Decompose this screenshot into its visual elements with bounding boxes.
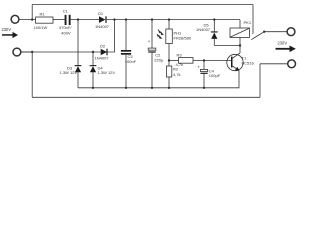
wire main + rail xyxy=(107,19,240,21)
svg-text:BC516: BC516 xyxy=(242,61,255,66)
resistor R1 xyxy=(36,17,53,23)
wire top bypass 230V live xyxy=(32,4,253,6)
svg-text:+: + xyxy=(148,39,151,44)
svg-text:1N4007: 1N4007 xyxy=(196,27,211,32)
svg-text:R3: R3 xyxy=(177,53,183,58)
capacitor C2 electrolytic xyxy=(151,18,153,20)
arrow 230V left xyxy=(2,32,18,38)
svg-text:230V: 230V xyxy=(278,40,288,45)
neutral row wire xyxy=(22,51,101,53)
svg-text:220µ: 220µ xyxy=(154,57,164,62)
wire bottom return xyxy=(32,96,260,98)
svg-text:C1: C1 xyxy=(63,8,69,13)
terminal input L (top-left circle) xyxy=(11,15,19,23)
diode D2 xyxy=(101,49,107,56)
svg-text:PK1: PK1 xyxy=(244,20,252,25)
svg-text:FR28/580: FR28/580 xyxy=(174,36,192,41)
wire C1 to D1 xyxy=(71,19,99,21)
wire L terminal to node xyxy=(20,19,36,21)
resistor R2 xyxy=(168,61,170,67)
wire riser to top bypass xyxy=(31,5,33,20)
svg-text:400V: 400V xyxy=(61,30,71,35)
transistor T1 xyxy=(227,54,243,70)
terminal output neutral xyxy=(259,64,261,98)
svg-text:1,3W 12V: 1,3W 12V xyxy=(98,70,116,75)
wire N terminal to node xyxy=(22,51,33,53)
capacitor C1 xyxy=(65,15,71,25)
terminal input N (lower-left circle) xyxy=(13,48,21,56)
diode D5 xyxy=(213,18,215,20)
svg-text:D2: D2 xyxy=(100,43,106,48)
zener D3 xyxy=(75,65,82,66)
svg-text:4,7k: 4,7k xyxy=(176,62,184,67)
wire N drop to bottom return xyxy=(31,52,33,97)
wire relay to collector xyxy=(239,38,241,54)
node L junction xyxy=(31,18,33,20)
wire R1 to C1 xyxy=(53,19,65,21)
relay PK1 xyxy=(239,20,241,28)
svg-text:100µF: 100µF xyxy=(209,73,221,78)
ground rail xyxy=(78,71,239,88)
terminal output switched xyxy=(287,28,295,36)
photoresistor PH1 xyxy=(168,18,170,20)
node B junction xyxy=(77,18,79,20)
zener D4 xyxy=(92,52,94,66)
capacitor C3 xyxy=(125,18,127,20)
node D2 riser junction xyxy=(113,18,115,20)
svg-text:D1: D1 xyxy=(98,11,104,16)
wire switch feed drop xyxy=(252,5,254,35)
wire node B drop to D3 (crosses neutral row) xyxy=(77,20,79,66)
capacitor C4 electrolytic xyxy=(203,59,205,61)
relay switch contact xyxy=(251,32,264,40)
svg-text:1,3W 12V: 1,3W 12V xyxy=(60,70,78,75)
light arrows PH1 xyxy=(157,30,164,39)
resistor R3 xyxy=(169,60,179,62)
svg-text:230V: 230V xyxy=(2,27,12,32)
svg-text:4,7k: 4,7k xyxy=(173,72,181,77)
node D4 junction xyxy=(92,51,94,53)
svg-text:1N4007: 1N4007 xyxy=(95,56,110,61)
svg-text:100nF: 100nF xyxy=(125,59,137,64)
wire D2 riser xyxy=(107,20,115,52)
node N junction xyxy=(31,51,33,53)
node base junction xyxy=(168,59,170,61)
diode D1 xyxy=(99,16,105,23)
arrow 230V right xyxy=(276,46,296,53)
svg-text:100/1W: 100/1W xyxy=(34,25,48,30)
svg-text:+: + xyxy=(197,65,200,70)
svg-text:R1: R1 xyxy=(40,11,46,16)
svg-text:1N4007: 1N4007 xyxy=(95,24,110,29)
